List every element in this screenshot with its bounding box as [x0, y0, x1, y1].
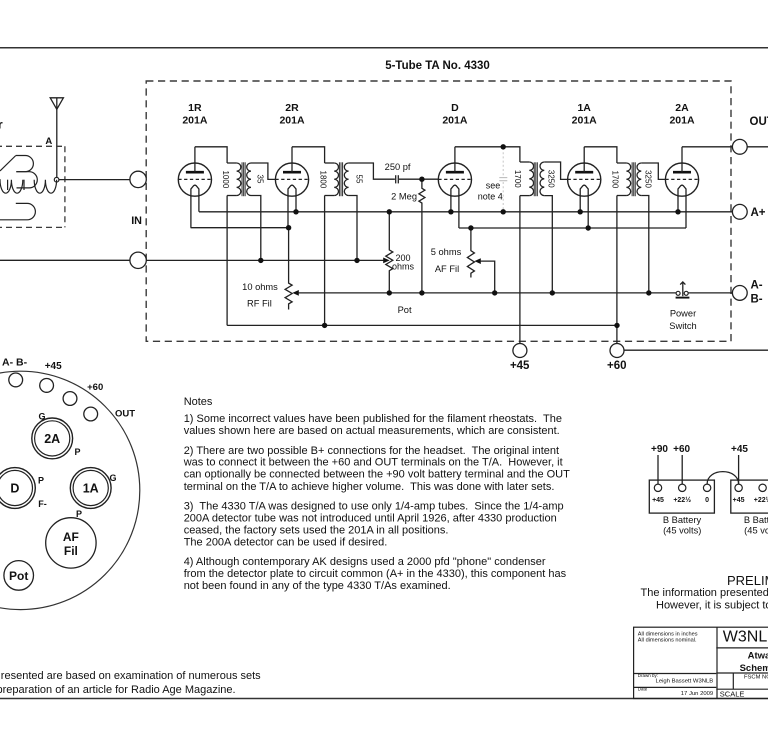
wire +60 terminal to sheet edge: [624, 349, 768, 351]
socket 2A: [32, 418, 73, 459]
svg-text:B Battery: B Battery: [663, 515, 702, 525]
svg-text:W3NLB: W3NLB: [723, 628, 768, 645]
svg-text:2R: 2R: [285, 102, 299, 114]
wire T1 primary bottom to +60 rail: [226, 196, 228, 326]
svg-text:ohms: ohms: [392, 262, 415, 272]
svg-text:can optionally be connected be: can optionally be connected between the …: [184, 469, 570, 481]
svg-text:A+: A+: [751, 207, 766, 219]
svg-text:P: P: [76, 509, 82, 519]
svg-text:values shown here are based on: values shown here are based on actual me…: [184, 425, 560, 437]
1R filament leads: [191, 196, 199, 227]
svg-text:+22½: +22½: [754, 496, 768, 504]
wire T2 secondary top to 250pf: [349, 163, 395, 179]
svg-text:+60: +60: [607, 360, 627, 372]
svg-text:+60: +60: [673, 444, 690, 455]
B battery 2 (cut off): [731, 480, 768, 535]
svg-text:3250: 3250: [546, 170, 555, 188]
D filament leads: [451, 196, 459, 228]
svg-text:Fil: Fil: [64, 544, 78, 558]
terminal A-/B-: [732, 286, 747, 301]
svg-text:2) There are two possible B+ c: 2) There are two possible B+ connections…: [184, 445, 559, 457]
svg-text:OUT: OUT: [750, 116, 768, 128]
AF Fil wiper arrow to A- rail: [474, 258, 480, 264]
svg-text:FSCM NO.: FSCM NO.: [744, 675, 768, 681]
svg-text:2 Meg: 2 Meg: [391, 191, 417, 201]
transformer T4 core: [632, 162, 635, 196]
power switch: [676, 282, 690, 298]
svg-text:SCALE: SCALE: [720, 689, 745, 698]
notes text block: [183, 396, 570, 592]
svg-text:5-Tube TA No. 4330: 5-Tube TA No. 4330: [385, 60, 490, 72]
tube 1A 201A: [568, 147, 601, 197]
A- rail with wiper arrow at RF Fil: [292, 290, 298, 296]
tube 1R 201A: [178, 147, 211, 197]
svg-text:P: P: [38, 476, 44, 486]
svg-text:1800: 1800: [318, 171, 327, 189]
terminal IN-: [130, 252, 146, 268]
svg-text:from the detector plate to cir: from the detector plate to circuit commo…: [184, 568, 567, 580]
svg-text:1A: 1A: [83, 481, 99, 495]
svg-text:IN: IN: [131, 215, 142, 227]
filament rail 1R-2R: [191, 227, 289, 229]
svg-text:+60: +60: [87, 382, 103, 393]
resistor 2 Meg: [419, 179, 425, 293]
antenna tap circle: [54, 177, 59, 182]
wire T3 secondary top to 1A grid: [544, 162, 567, 179]
antenna symbol: [50, 98, 63, 178]
terminal +60: [610, 344, 624, 358]
svg-text:G: G: [38, 411, 45, 421]
svg-text:1700: 1700: [513, 170, 522, 188]
svg-text:terminal on the T/A to achieve: terminal on the T/A to achieve higher vo…: [184, 481, 555, 493]
svg-text:5 ohms: 5 ohms: [431, 247, 462, 257]
1A filament leads: [580, 196, 588, 228]
svg-text:AF: AF: [63, 530, 79, 544]
capacitor 250 pf: [396, 175, 399, 183]
battery lead +60: [681, 455, 683, 484]
wire T4 secondary bottom to A- rail: [641, 196, 649, 293]
transformer T3 primary coil 1700: [520, 162, 534, 196]
wire T4 primary bottom to +60 terminal: [616, 196, 618, 344]
filament rail D-1A-2A: [459, 227, 686, 229]
svg-text:All dimensions nominal.: All dimensions nominal.: [638, 637, 697, 643]
transformer T2 core: [339, 162, 342, 196]
svg-text:+22½: +22½: [673, 496, 691, 504]
wire 2A plate to OUT terminal: [682, 146, 732, 148]
wire 2R plate to T2 primary: [292, 147, 325, 163]
terminal IN+: [130, 171, 146, 187]
wire OUT terminal to sheet edge: [747, 146, 768, 148]
transformer T1 secondary coil 35: [247, 163, 251, 195]
svg-text:3) The 4330 T/A was designed: 3) The 4330 T/A was designed to use only…: [184, 501, 564, 513]
svg-text:+90: +90: [651, 444, 668, 455]
svg-text:35: 35: [256, 175, 265, 184]
transformer T3 core: [534, 162, 537, 196]
tube D 201A: [438, 147, 471, 197]
wire 250pf to D grid: [399, 178, 438, 180]
svg-text:(45 volts): (45 volts): [744, 525, 768, 535]
svg-text:Notes: Notes: [184, 396, 213, 408]
junction dot D grid / 2 Meg: [419, 177, 424, 182]
svg-text:AF Fil: AF Fil: [435, 264, 459, 274]
chassis board outline circle: [0, 371, 140, 609]
preliminary notice text (cut off at right): [641, 573, 768, 611]
battery lead +90: [657, 455, 659, 484]
svg-text:resented are based on examinat: resented are based on examination of num…: [1, 670, 261, 682]
wire coupler tap to IN+ terminal: [59, 179, 130, 181]
wire T1 secondary top to 2R grid: [251, 163, 275, 179]
Pot location: [4, 561, 34, 591]
rheostat 5 ohms AF Fil: [467, 228, 474, 278]
svg-text:+45: +45: [731, 444, 748, 455]
terminal OUT: [732, 139, 747, 154]
svg-text:Atwater Kent: Atwater Kent: [748, 650, 768, 661]
svg-text:preparation of an article for: preparation of an article for Radio Age …: [0, 684, 236, 696]
wiper arrow into 200 ohm pot: [383, 258, 389, 264]
chassis terminal +60: [63, 392, 77, 406]
svg-text:1700: 1700: [611, 171, 620, 189]
svg-text:0: 0: [705, 497, 709, 504]
socket D: [0, 468, 35, 509]
wire left edge to IN- terminal: [0, 259, 130, 261]
svg-text:201A: 201A: [279, 114, 305, 126]
svg-text:Date: Date: [638, 687, 648, 692]
junction dot plate wire / phantom cap: [501, 144, 506, 149]
svg-text:+45: +45: [45, 361, 62, 372]
svg-text:However, it is subject to chan: However, it is subject to change without…: [656, 599, 768, 611]
svg-text:1000: 1000: [221, 171, 230, 189]
svg-text:17 Jun 2009: 17 Jun 2009: [681, 691, 713, 697]
svg-text:10 ohms: 10 ohms: [242, 282, 278, 292]
transformer T4 primary coil 1700: [617, 163, 631, 196]
svg-text:F-: F-: [38, 499, 47, 509]
svg-text:A- B-: A- B-: [2, 356, 28, 368]
2A filament leads: [678, 196, 686, 228]
title block: [634, 627, 768, 698]
svg-text:Leigh Bassett W3NLB: Leigh Bassett W3NLB: [656, 679, 714, 685]
tube 2A 201A: [665, 147, 698, 197]
tube 2R 201A: [275, 147, 308, 197]
transformer T1 core: [242, 162, 245, 196]
transformer T2 primary coil 1800: [325, 163, 339, 196]
chassis terminal OUT: [84, 407, 98, 421]
svg-text:B Battery: B Battery: [744, 515, 768, 525]
svg-text:1R: 1R: [188, 102, 202, 114]
bottom-left note text (cut off at left): [0, 670, 261, 696]
phantom condenser (see note 4): [499, 148, 507, 210]
2R filament leads: [288, 196, 296, 227]
rheostat 200 ohms Pot: [386, 212, 393, 293]
wire T2 primary bottom to +60 rail: [324, 196, 326, 326]
svg-text:201A: 201A: [182, 114, 208, 126]
coupler coil: [0, 156, 57, 220]
svg-text:RF Fil: RF Fil: [247, 299, 272, 309]
chassis terminal B-: [9, 373, 23, 387]
rheostat 10 ohms RF Fil: [285, 228, 292, 310]
wire 1R plate to T1 primary: [195, 147, 227, 163]
wire T1 secondary bottom to grid-return rail: [251, 196, 261, 261]
wire D plate to T3 primary: [455, 147, 520, 162]
transformer T3 secondary coil 3250: [540, 162, 544, 196]
svg-text:r: r: [0, 118, 3, 132]
svg-text:PRELIMINARY: PRELIMINARY: [727, 573, 768, 588]
svg-text:A: A: [45, 136, 52, 147]
battery lead +45: [738, 455, 740, 484]
transformer T2 secondary coil 55: [344, 163, 348, 195]
svg-text:D: D: [10, 481, 19, 495]
sheet bottom border line: [0, 698, 768, 700]
+60 B+ rail: [227, 324, 617, 326]
svg-text:2A: 2A: [675, 102, 689, 114]
svg-text:55: 55: [355, 175, 364, 184]
svg-text:Switch: Switch: [669, 321, 696, 331]
A+ rail: [199, 211, 732, 213]
svg-text:+45: +45: [652, 497, 664, 504]
svg-text:was to connect it between the: was to connect it between the +60 and OU…: [183, 457, 563, 469]
wire T3 secondary bottom to A- rail: [544, 196, 552, 293]
svg-text:Schematic Diag: Schematic Diag: [740, 663, 768, 674]
svg-text:1A: 1A: [577, 102, 591, 114]
svg-text:note 4: note 4: [478, 192, 503, 202]
wire T4 secondary top to 2A grid: [641, 163, 665, 179]
svg-text:B-: B-: [751, 293, 763, 305]
grid-return rail from IN-: [146, 259, 383, 261]
B battery 1: [649, 480, 714, 535]
svg-text:+45: +45: [510, 360, 530, 372]
svg-text:A-: A-: [751, 279, 763, 291]
junction dots: [258, 209, 681, 328]
chassis terminal +45: [40, 379, 54, 393]
transformer T4 secondary coil 3250: [637, 163, 641, 195]
svg-text:not been found in any of the t: not been found in any of the type 4330 T…: [184, 580, 451, 592]
svg-text:P: P: [74, 447, 80, 457]
battery series jumper wire: [707, 472, 739, 484]
svg-text:1) Some incorrect values have: 1) Some incorrect values have been publi…: [184, 413, 562, 425]
svg-text:Power: Power: [670, 309, 696, 319]
terminal A+: [732, 204, 747, 219]
svg-text:OUT: OUT: [115, 409, 135, 420]
svg-text:201A: 201A: [572, 114, 598, 126]
wire T2 secondary bottom to grid-return rail: [349, 196, 357, 261]
svg-text:2A: 2A: [44, 432, 60, 446]
svg-text:G: G: [109, 473, 116, 483]
svg-text:Pot: Pot: [9, 569, 28, 583]
svg-text:201A: 201A: [669, 114, 695, 126]
svg-text:The information presented here: The information presented here is believ…: [641, 587, 768, 599]
svg-text:Drawn by:: Drawn by:: [638, 673, 658, 678]
svg-text:Pot: Pot: [398, 305, 412, 315]
svg-text:3250: 3250: [644, 170, 653, 188]
svg-text:(45 volts): (45 volts): [663, 525, 701, 535]
transformer T1 primary coil 1000: [227, 163, 241, 196]
wire 1A plate to T4 primary: [584, 147, 617, 163]
coupler dashed box: [0, 146, 65, 227]
T/A unit dashed enclosure: [146, 81, 731, 341]
svg-text:D: D: [451, 102, 459, 114]
svg-text:250 pf: 250 pf: [385, 162, 411, 172]
svg-text:200A detector tube was not int: 200A detector tube was not introduced un…: [184, 513, 557, 525]
svg-text:201A: 201A: [442, 114, 468, 126]
socket 1A: [70, 468, 111, 509]
svg-text:see: see: [486, 180, 501, 190]
wire switch to A-/B- terminal: [688, 292, 732, 294]
svg-text:+45: +45: [733, 497, 745, 504]
svg-text:ceased, the factory sets used: ceased, the factory sets used the 201A i…: [184, 525, 449, 537]
wire T3 primary bottom to +45 terminal: [519, 196, 521, 344]
AF Fil rheostat location: [46, 518, 96, 568]
svg-text:The 200A detector can be used: The 200A detector can be used if desired…: [184, 537, 388, 549]
svg-text:4) Although contemporary AK de: 4) Although contemporary AK designs used…: [184, 556, 546, 568]
terminal +45: [513, 344, 527, 358]
sheet top border line: [0, 47, 768, 49]
